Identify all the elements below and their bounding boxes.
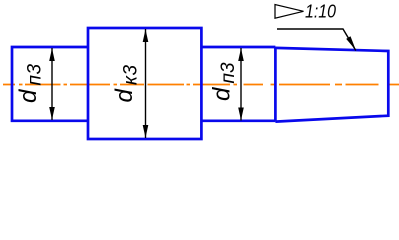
- label d_p3 left: [15, 63, 46, 103]
- taper value 1:10: [305, 2, 336, 22]
- svg-text:п3: п3: [25, 63, 46, 85]
- svg-text:п3: п3: [218, 62, 239, 83]
- label d_k3 middle: [111, 64, 142, 102]
- dimension line d_k3 middle: [143, 29, 149, 138]
- taper leader line: [277, 29, 356, 51]
- centerline: [3, 84, 399, 86]
- svg-text:d: d: [111, 89, 138, 103]
- svg-text:к3: к3: [121, 64, 142, 85]
- label d_p3 right: [209, 62, 240, 101]
- dimension line d_p3 left: [49, 48, 55, 120]
- shaft section 1 outline: [12, 47, 88, 121]
- svg-text:1:10: 1:10: [305, 2, 336, 22]
- taper symbol triangle: [275, 5, 304, 19]
- svg-text:d: d: [15, 89, 42, 103]
- dimension line d_p3 right: [238, 48, 244, 121]
- shaft section 2 outline: [88, 28, 201, 139]
- svg-text:d: d: [209, 87, 236, 101]
- shaft taper section outline: [275, 48, 388, 122]
- shaft section 3 outline: [201, 47, 275, 121]
